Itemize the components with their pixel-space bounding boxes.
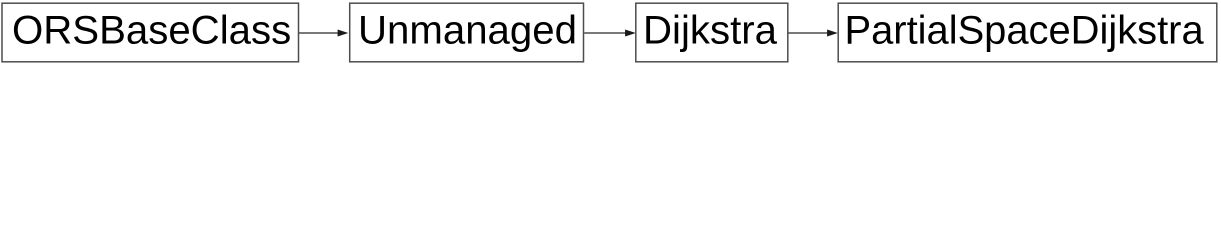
class box PartialSpaceDijkstra bbox=[838, 3, 1217, 62]
arrow ORSBaseClass to Unmanaged bbox=[299, 30, 347, 36]
box border PartialSpaceDijkstra bbox=[838, 3, 1217, 62]
box border Unmanaged bbox=[350, 3, 584, 62]
wire: arrow shaft 3 bbox=[789, 32, 829, 34]
box border Dijkstra bbox=[636, 3, 788, 62]
class box ORSBaseClass bbox=[2, 3, 299, 62]
box border ORSBaseClass bbox=[2, 3, 299, 62]
arrowhead 1 bbox=[338, 30, 347, 36]
wire: arrow shaft 2 bbox=[584, 32, 626, 34]
wire: arrow shaft 1 bbox=[299, 32, 339, 34]
arrow Unmanaged to Dijkstra bbox=[584, 30, 634, 36]
svg-text:PartialSpaceDijkstra: PartialSpaceDijkstra bbox=[845, 9, 1205, 53]
arrowhead 2 bbox=[626, 30, 635, 36]
class box Dijkstra bbox=[636, 3, 788, 62]
arrow Dijkstra to PartialSpaceDijkstra bbox=[789, 30, 837, 36]
svg-text:ORSBaseClass: ORSBaseClass bbox=[12, 8, 291, 53]
svg-text:Dijkstra: Dijkstra bbox=[643, 8, 778, 53]
arrowhead 3 bbox=[828, 30, 837, 36]
inheritance diagram bbox=[0, 0, 1221, 65]
svg-text:Unmanaged: Unmanaged bbox=[358, 8, 577, 53]
class box Unmanaged bbox=[350, 3, 584, 62]
